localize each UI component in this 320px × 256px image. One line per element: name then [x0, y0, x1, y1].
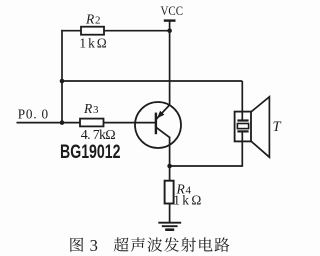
wire left vertical bus: [61, 30, 63, 123]
ground symbol: [158, 223, 181, 230]
resistor R2: [81, 27, 104, 35]
wire R4 to ground: [169, 204, 171, 223]
wire bottom feed to transducer: [170, 165, 243, 167]
transistor Q1 base bar: [155, 113, 157, 135]
svg-text:3: 3: [90, 236, 98, 255]
caption text: 超声波发射电路 (ultrasonic transmitting circuit): [114, 237, 230, 252]
wire P0.0 row to transistor base: [17, 122, 156, 124]
transducer T outer case: [235, 112, 251, 142]
svg-text:R2: R2: [85, 12, 101, 27]
junction dot left bus / transducer top wire: [60, 79, 65, 84]
transistor Q1 emitter arrow (PNP, pointing into base): [157, 111, 164, 119]
transistor Q1 emitter lead: [156, 105, 170, 120]
junction dot collector / R4 / transducer bottom wire: [167, 164, 172, 169]
wire VCC stem down to transistor emitter: [169, 22, 171, 106]
transistor Q1 collector lead: [156, 127, 170, 137]
svg-text:P0. 0: P0. 0: [18, 107, 49, 122]
resistor R3: [80, 119, 104, 127]
svg-text:1kΩ: 1kΩ: [79, 35, 108, 50]
wire right bus bottom segment out of transducer: [241, 131, 243, 166]
svg-text:R3: R3: [83, 101, 99, 116]
wire right bus top segment into transducer: [241, 81, 243, 120]
resistor R4: [165, 181, 174, 204]
wire R2 row from left bus to VCC stem: [61, 30, 169, 32]
svg-text:4. 7kΩ: 4. 7kΩ: [81, 128, 116, 143]
svg-text:VCC: VCC: [161, 4, 184, 18]
transducer T piezo top plate: [237, 119, 248, 121]
junction dot left bus / P0.0 row: [60, 120, 65, 125]
transducer T crystal element: [237, 124, 248, 129]
junction dot R2 wire / VCC stem: [167, 28, 172, 33]
wire collector down to R4: [169, 137, 171, 182]
transducer T horn cone: [251, 97, 269, 157]
svg-text:T: T: [273, 119, 282, 135]
transducer T piezo bottom plate: [237, 130, 248, 132]
transistor Q1 BG19012 body circle: [135, 102, 181, 148]
svg-text:1kΩ: 1kΩ: [173, 193, 204, 208]
svg-text:BG19012: BG19012: [60, 142, 121, 163]
VCC power bar symbol: [164, 19, 176, 21]
wire top feed to transducer: [62, 80, 242, 82]
caption: figure number 图 3: [70, 236, 98, 255]
